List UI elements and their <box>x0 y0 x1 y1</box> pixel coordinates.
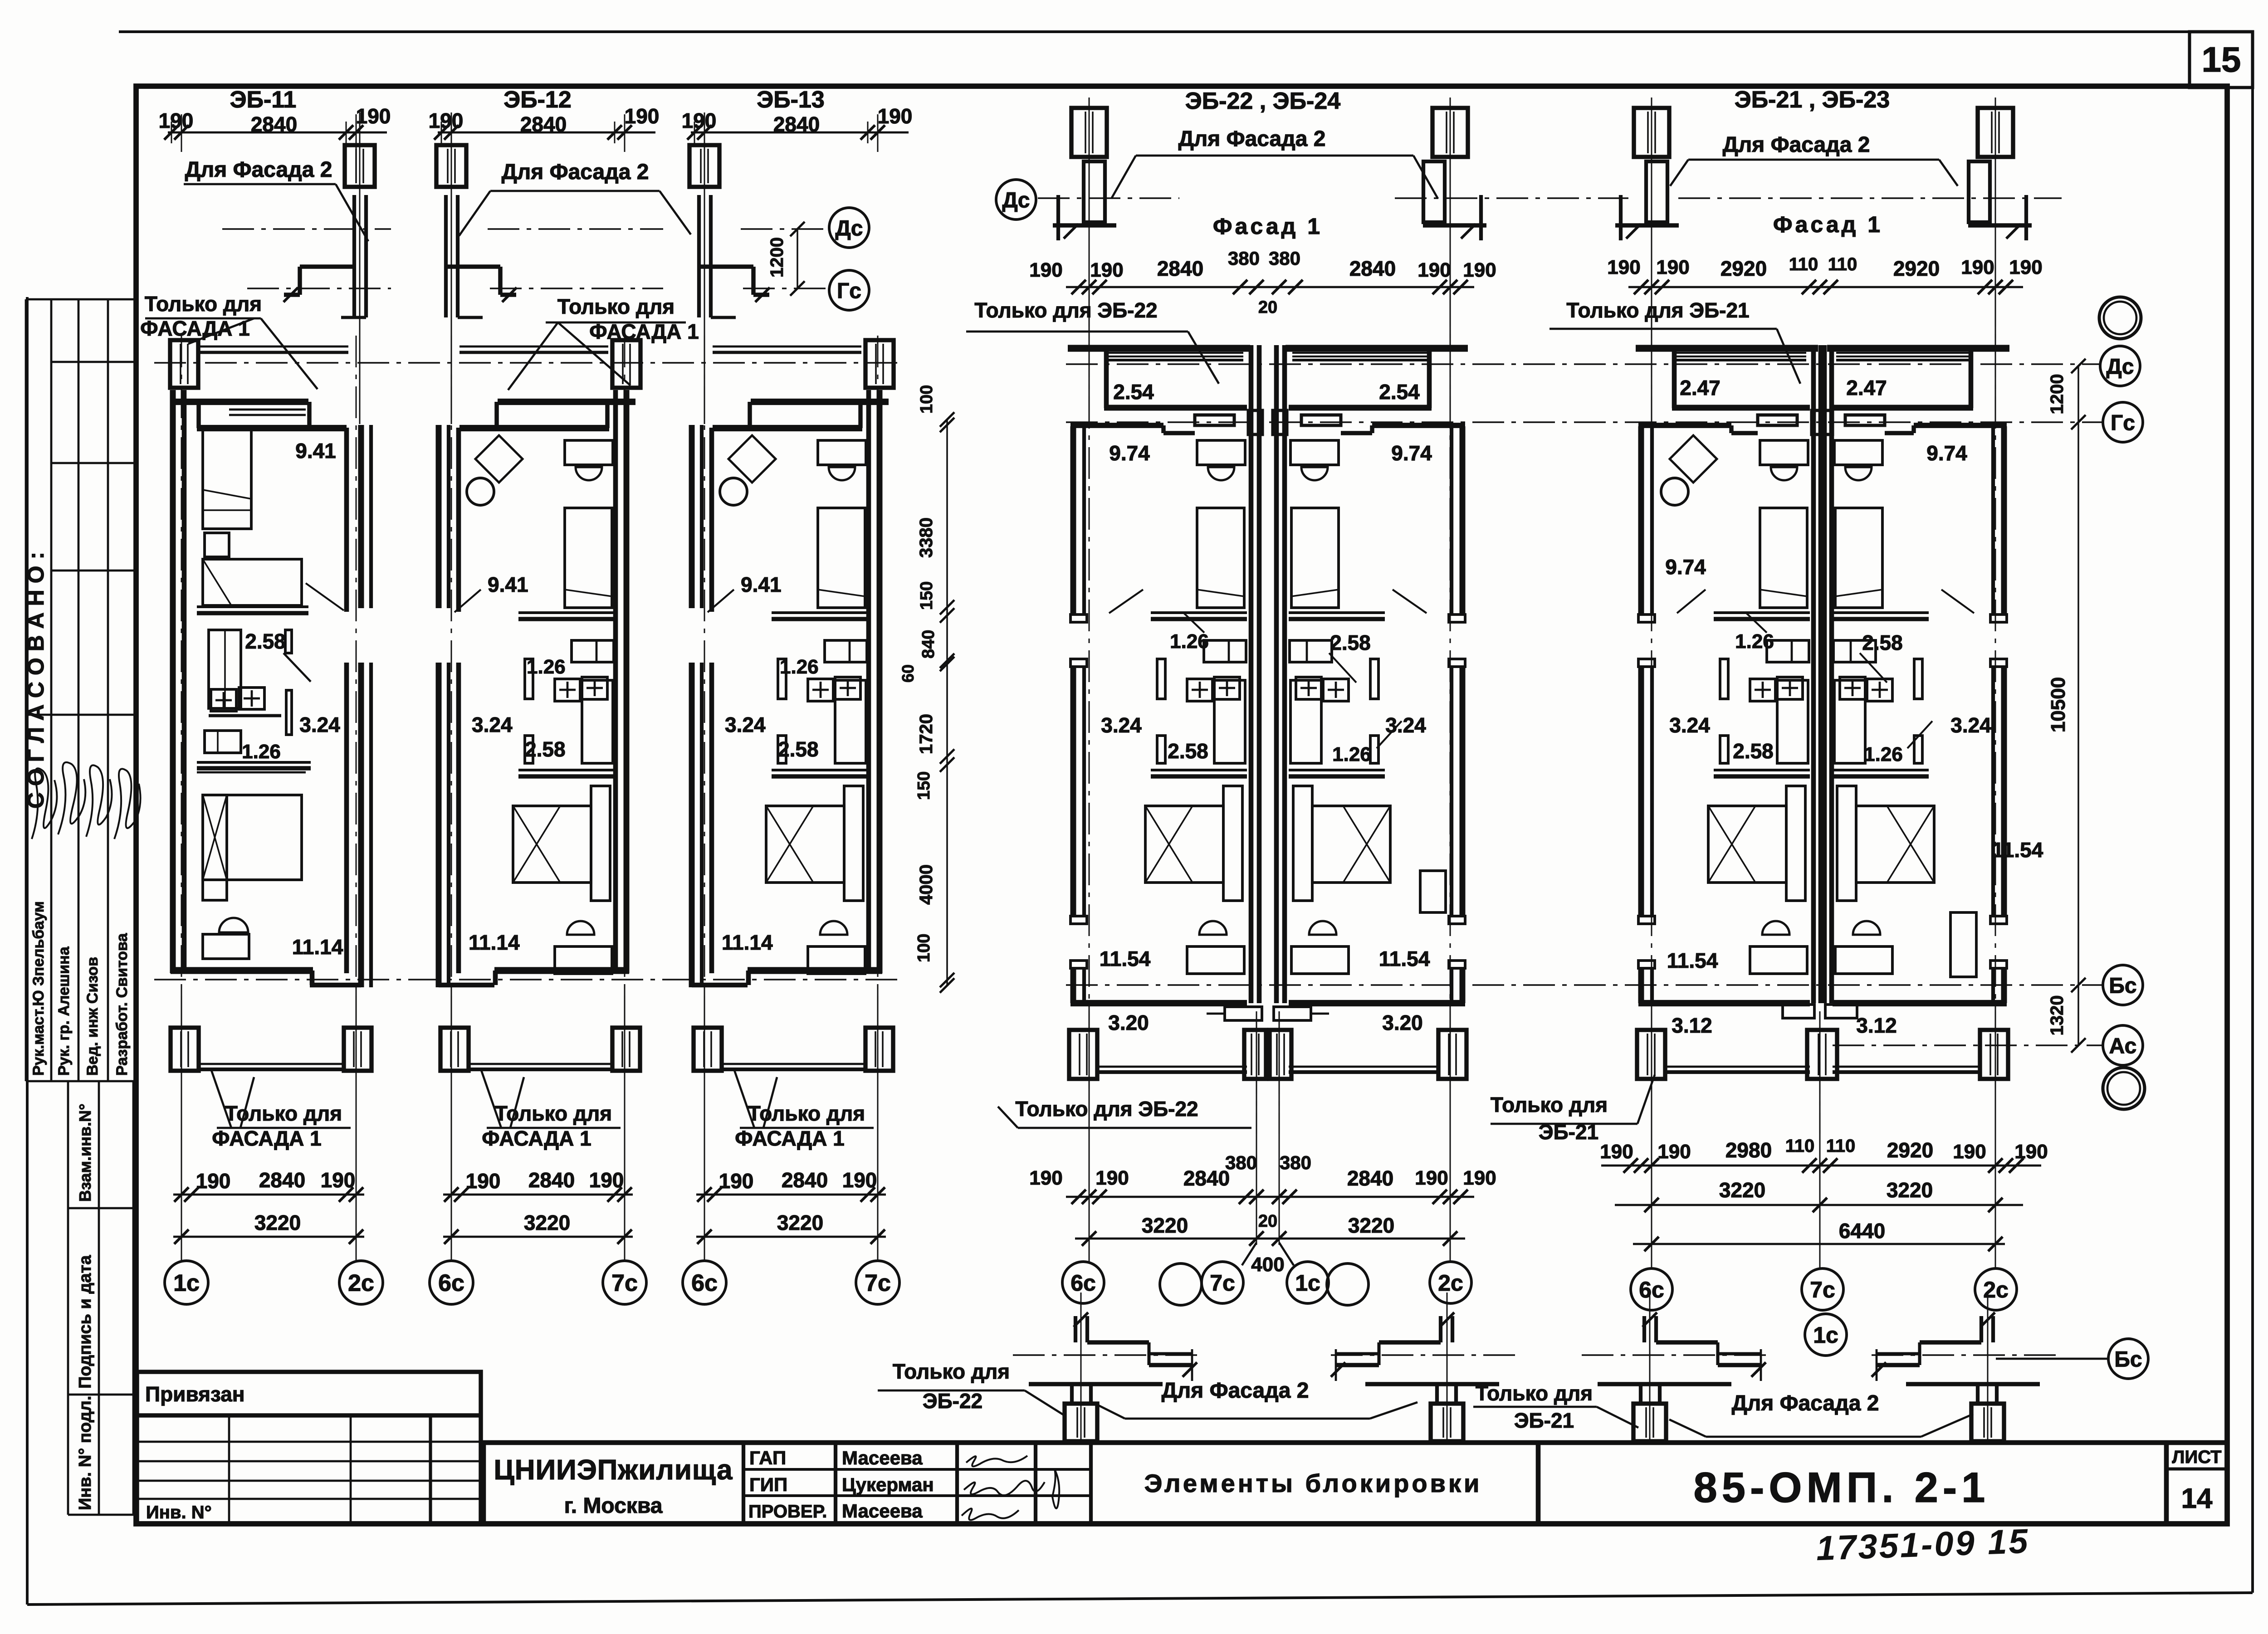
svg-text:Для Фасада 2: Для Фасада 2 <box>1162 1379 1309 1403</box>
axis circle 6с <box>430 1261 473 1304</box>
svg-text:380: 380 <box>1280 1152 1311 1173</box>
svg-text:190: 190 <box>1607 256 1640 278</box>
desk bottom <box>808 946 865 974</box>
top section lower pier <box>1969 161 1990 222</box>
svg-text:1с: 1с <box>1813 1322 1838 1348</box>
loggia window lines <box>1109 352 1243 354</box>
bottom section corner wall <box>1642 1316 1646 1342</box>
svg-text:Вед. инж Сизов: Вед. инж Сизов <box>84 957 101 1076</box>
bottom dim line 2 <box>173 1236 364 1238</box>
svg-text:3.20: 3.20 <box>1108 1011 1149 1034</box>
dresser <box>1197 440 1245 465</box>
room top wall steps <box>1638 423 1731 428</box>
door leaf bars <box>525 659 533 699</box>
svg-text:9.74: 9.74 <box>1109 441 1150 465</box>
svg-text:190: 190 <box>1961 256 1994 278</box>
svg-text:3220: 3220 <box>777 1211 823 1234</box>
svg-text:9.74: 9.74 <box>1665 555 1706 579</box>
balcony front line <box>1665 1066 1810 1068</box>
bottom section axis line <box>1870 1354 2056 1356</box>
loggia top wall <box>1636 345 1818 351</box>
loggia side wall <box>1104 345 1109 408</box>
balcony pier right <box>865 1028 893 1071</box>
desk bottom <box>555 946 612 974</box>
bottom axis extension lines <box>181 984 182 1261</box>
kitchen leader lines plans 4-5 <box>1329 653 1356 683</box>
bottom section corner wall <box>1451 1316 1454 1342</box>
svg-text:1.26: 1.26 <box>780 656 819 678</box>
top section pier <box>1071 108 1107 157</box>
svg-text:100: 100 <box>914 934 934 962</box>
svg-text:190: 190 <box>1600 1141 1633 1163</box>
balcony pier <box>1637 1030 1665 1079</box>
axis circle Гс plans 1-3 <box>829 270 869 310</box>
balcony pier <box>1069 1030 1097 1079</box>
stove and sink with plus <box>1323 679 1349 701</box>
wash sink semicircle <box>1199 921 1227 935</box>
loggia top wall <box>1068 345 1250 351</box>
svg-text:1с: 1с <box>1295 1270 1320 1296</box>
desk bottom <box>1187 946 1244 974</box>
kitchen small rects <box>1833 640 1876 662</box>
svg-text:7с: 7с <box>611 1270 638 1297</box>
bottom section base line <box>1365 1382 1499 1386</box>
svg-text:Ас: Ас <box>2109 1034 2137 1058</box>
svg-text:190: 190 <box>2014 1141 2048 1163</box>
plan5 bottom dim line 2 <box>1615 1204 2023 1206</box>
bottom section base line <box>1906 1382 2040 1386</box>
plan ЭБ-12 right wall <box>613 390 618 973</box>
svg-text:6с: 6с <box>691 1270 718 1297</box>
dresser <box>1760 440 1808 465</box>
outer sheet border top <box>119 30 2253 33</box>
plan ЭБ-11 room 9.41 bed vertical <box>203 430 251 529</box>
bottom dim line 2 <box>443 1236 633 1238</box>
bottom dim line 1 <box>173 1194 364 1196</box>
loggia side wall <box>1427 345 1432 408</box>
top dim extension lines <box>451 114 452 152</box>
svg-text:9.41: 9.41 <box>295 439 336 463</box>
svg-text:1.26: 1.26 <box>527 656 566 678</box>
desk bottom <box>1291 946 1349 974</box>
svg-text:Подпись и дата: Подпись и дата <box>76 1255 95 1389</box>
svg-text:15: 15 <box>2202 39 2241 79</box>
svg-text:2840: 2840 <box>1347 1166 1393 1190</box>
bottom section pier <box>1639 1384 1642 1404</box>
svg-text:ЭБ-11: ЭБ-11 <box>230 87 297 113</box>
partition below top room <box>1833 611 1929 614</box>
double bed (bottom room) <box>1145 806 1223 883</box>
kitchen small rects <box>1204 640 1246 662</box>
party wall lines <box>1249 345 1254 1003</box>
plan ЭБ-11 window pier <box>170 340 198 388</box>
bottom wall <box>1289 1000 1465 1006</box>
svg-text:1.26: 1.26 <box>1332 743 1371 766</box>
svg-text:Гс: Гс <box>837 279 861 303</box>
plan ЭБ-13 left wall inner <box>709 428 714 612</box>
right axis circles column <box>2099 297 2141 339</box>
axis circle 1с <box>165 1261 208 1304</box>
bed (top room) <box>1291 508 1339 608</box>
plan ЭБ-11 cabinet bottom <box>203 934 249 959</box>
svg-text:3.24: 3.24 <box>1669 713 1710 737</box>
svg-text:190: 190 <box>356 104 391 128</box>
svg-text:Только для ЭБ-21: Только для ЭБ-21 <box>1566 298 1749 322</box>
kitchen counter <box>1777 680 1808 763</box>
door leaf bars <box>778 659 786 699</box>
door leaf bars <box>1914 659 1922 699</box>
plan ЭБ-11 kitchen shelf line <box>209 714 281 717</box>
sink semicircle below dresser <box>576 467 602 480</box>
door leaf bars <box>1157 659 1165 699</box>
stove and sink with plus <box>1867 679 1892 701</box>
bed (top room) <box>1760 508 1807 608</box>
svg-text:1.26: 1.26 <box>1735 630 1774 653</box>
plan ЭБ-12 left wall inner <box>456 428 461 612</box>
svg-text:Только для: Только для <box>1491 1093 1608 1117</box>
svg-text:2920: 2920 <box>1721 257 1767 280</box>
svg-text:Взам.инв.N°: Взам.инв.N° <box>76 1104 94 1202</box>
axis circle Дс plans 1-3 <box>829 208 869 248</box>
plan4 bottom thresholds <box>1225 1007 1262 1020</box>
svg-text:Для Фасада 2: Для Фасада 2 <box>1723 133 1870 157</box>
plan5 balcony center pier <box>1807 1030 1837 1079</box>
svg-text:ЭБ-22: ЭБ-22 <box>923 1389 982 1413</box>
svg-text:2840: 2840 <box>773 112 820 136</box>
svg-text:Инв. N° подл.: Инв. N° подл. <box>76 1396 95 1510</box>
plan ЭБ-12 bottom wall <box>494 967 629 974</box>
kitchen counter <box>1214 680 1245 763</box>
door leaf bars <box>1720 659 1728 699</box>
partition below top room <box>1714 611 1810 614</box>
svg-text:Дс: Дс <box>836 216 863 240</box>
svg-text:Только для ЭБ-22: Только для ЭБ-22 <box>974 298 1157 322</box>
svg-text:ЭБ-21 , ЭБ-23: ЭБ-21 , ЭБ-23 <box>1735 87 1890 113</box>
bottom section base line <box>1029 1382 1163 1386</box>
axis circle Бс bottom right <box>2108 1339 2148 1379</box>
plan5 loggia center pier <box>1812 410 1833 434</box>
outer sheet border right <box>2251 32 2254 1593</box>
stove and sink with plus <box>1187 679 1212 701</box>
balcony pier right <box>612 1028 640 1071</box>
svg-text:190: 190 <box>159 109 194 132</box>
svg-text:Масеева: Масеева <box>842 1447 923 1468</box>
axis Дс line plans 4-5 top sections <box>1038 197 1179 199</box>
top dim extension lines <box>181 114 182 152</box>
plan ЭБ-12 window lines <box>459 346 608 348</box>
svg-text:190: 190 <box>429 109 464 132</box>
top dimension line <box>438 132 655 134</box>
bottom dim line 2 <box>696 1236 886 1238</box>
bottom section corner wall <box>1991 1316 1995 1342</box>
partition below kitchen <box>1289 769 1385 771</box>
plan ЭБ-13 bottom wall <box>748 967 882 974</box>
room top wall steps <box>1372 423 1465 428</box>
balcony pier left <box>440 1028 469 1071</box>
svg-text:2840: 2840 <box>520 112 567 136</box>
bottom axis extension lines <box>704 984 705 1261</box>
axis Ас line plans 4-5 <box>1833 1044 2103 1046</box>
bottom dim line 1 <box>696 1194 886 1196</box>
svg-text:9.74: 9.74 <box>1391 441 1432 465</box>
svg-text:11.14: 11.14 <box>292 935 343 959</box>
plan5 top dim line <box>1628 286 2023 288</box>
plan ЭБ-11 partition 1 <box>197 605 308 608</box>
kitchen counter <box>1290 680 1321 763</box>
kitchen small rects <box>825 640 867 662</box>
svg-text:190: 190 <box>1657 1141 1691 1163</box>
svg-text:Рук.маст.Ю Зпельбаум: Рук.маст.Ю Зпельбаум <box>30 901 47 1076</box>
svg-text:ФАСАДА 1: ФАСАДА 1 <box>482 1127 591 1150</box>
svg-text:11.54: 11.54 <box>1379 947 1430 971</box>
plan ЭБ-11 door bar 2 <box>286 690 292 735</box>
plan5 axis circles <box>1631 1268 1672 1310</box>
axis circle 2с <box>339 1261 383 1304</box>
loggia bottom wall <box>1672 405 1810 411</box>
svg-text:190: 190 <box>842 1168 877 1192</box>
bottom section corner wall <box>1074 1316 1077 1342</box>
svg-text:2.47: 2.47 <box>1846 376 1887 400</box>
svg-text:2840: 2840 <box>259 1168 305 1192</box>
svg-text:11.14: 11.14 <box>469 931 520 954</box>
diamond table <box>1670 435 1717 483</box>
svg-text:7с: 7с <box>865 1270 891 1297</box>
svg-text:1200: 1200 <box>2047 374 2067 415</box>
window tick marks <box>1990 615 2007 622</box>
plan ЭБ-11 nightstand <box>205 533 229 557</box>
svg-text:20: 20 <box>1258 1212 1277 1231</box>
svg-text:60: 60 <box>899 664 917 683</box>
svg-text:Для Фасада 2: Для Фасада 2 <box>1732 1391 1879 1415</box>
svg-text:г. Москва: г. Москва <box>564 1494 663 1518</box>
plan ЭБ-11 interior top wall <box>197 425 347 431</box>
wash sink semicircle <box>1762 921 1789 935</box>
plan ЭБ-11 sink bottom <box>219 918 248 932</box>
bottom section pier <box>1070 1384 1074 1404</box>
plan4 bottom dim line 2 <box>1075 1238 1465 1240</box>
plan ЭБ-13 right wall <box>866 390 871 973</box>
svg-text:11.54: 11.54 <box>1992 838 2043 862</box>
bed (top room) <box>1197 508 1244 608</box>
window tick marks <box>1638 615 1655 622</box>
bottom section axis line <box>1329 1354 1515 1356</box>
svg-text:400: 400 <box>1251 1254 1284 1276</box>
svg-text:11.54: 11.54 <box>1667 949 1718 972</box>
svg-text:190: 190 <box>1029 259 1062 281</box>
top dim extension lines <box>704 114 705 152</box>
svg-text:ФАСАДА 1: ФАСАДА 1 <box>735 1127 845 1150</box>
sink semicircle below dresser <box>1771 467 1797 480</box>
svg-text:ФАСАДА 1: ФАСАДА 1 <box>140 317 250 340</box>
balcony pier <box>1438 1030 1466 1079</box>
svg-text:ЭБ-22 , ЭБ-24: ЭБ-22 , ЭБ-24 <box>1185 88 1340 114</box>
plan5 bottom thresholds <box>1783 1005 1814 1018</box>
svg-text:190: 190 <box>682 109 717 132</box>
partition below top room <box>518 611 615 614</box>
svg-text:2840: 2840 <box>1183 1166 1230 1190</box>
kitchen counter <box>582 680 613 763</box>
plan5 bottom dim line 3 <box>1633 1243 2005 1245</box>
svg-text:2.58: 2.58 <box>525 737 566 761</box>
svg-text:Только для: Только для <box>1476 1381 1593 1405</box>
axis Бс line plans 4-5 <box>1066 984 2103 986</box>
svg-text:110: 110 <box>1828 254 1857 274</box>
svg-text:2840: 2840 <box>1349 257 1396 280</box>
bottom wall <box>1070 1000 1247 1006</box>
svg-text:Только для: Только для <box>145 292 262 316</box>
sidebar signatures <box>32 762 141 839</box>
dresser <box>565 440 613 465</box>
top section pier <box>1634 108 1669 157</box>
room label leader lines <box>306 583 344 610</box>
chair circle <box>1661 478 1688 505</box>
kitchen counter <box>1834 680 1865 763</box>
svg-text:6с: 6с <box>438 1270 464 1297</box>
svg-text:2.58: 2.58 <box>245 629 286 653</box>
dresser <box>1834 440 1882 465</box>
double bed (bottom room) <box>1312 806 1390 883</box>
top dimension line <box>691 132 909 134</box>
axis Дс line plans 1-3 top sections <box>222 228 391 230</box>
kitchen small rects <box>1290 640 1332 662</box>
svg-text:2.58: 2.58 <box>1862 631 1903 654</box>
plan ЭБ-11 bottom wall <box>171 967 313 974</box>
bottom dim line 1 <box>443 1194 633 1196</box>
wash sink semicircle <box>1309 921 1336 935</box>
double bed (bottom room) <box>766 806 844 883</box>
plan ЭБ-11 wc <box>205 731 241 753</box>
svg-text:190: 190 <box>878 104 913 128</box>
svg-text:Только для ЭБ-22: Только для ЭБ-22 <box>1015 1097 1198 1121</box>
plan ЭБ-12 top wall section <box>436 145 466 187</box>
wash sink semicircle <box>1853 921 1880 935</box>
plan ЭБ-11 right wall inner <box>344 428 349 612</box>
svg-text:ЦНИИЭПжилища: ЦНИИЭПжилища <box>494 1454 733 1486</box>
svg-text:Для Фасада 2: Для Фасада 2 <box>185 158 332 182</box>
plan4 top dim line <box>1066 286 1474 288</box>
balcony front line <box>469 1063 612 1065</box>
middle vertical dim column <box>946 419 948 985</box>
dresser <box>1290 440 1339 465</box>
svg-text:Цукерман: Цукерман <box>842 1474 934 1495</box>
loggia window lines <box>1292 352 1427 354</box>
svg-text:ЭБ-12: ЭБ-12 <box>503 87 572 113</box>
sink semicircle below dresser <box>1301 467 1328 480</box>
svg-text:2840: 2840 <box>251 112 297 136</box>
plan ЭБ-13 top wall <box>751 399 889 405</box>
svg-text:150: 150 <box>914 771 934 800</box>
stove and sink with plus <box>555 679 580 701</box>
svg-text:110: 110 <box>1785 1136 1815 1156</box>
double bed (bottom room) <box>1708 806 1786 883</box>
plan ЭБ-11 double bed <box>203 795 302 880</box>
svg-text:1720: 1720 <box>916 714 936 754</box>
svg-text:2.58: 2.58 <box>1733 739 1774 763</box>
svg-text:190: 190 <box>719 1169 754 1193</box>
axis circle 7с <box>603 1261 646 1304</box>
svg-text:2.58: 2.58 <box>1168 739 1208 763</box>
loggia window lines <box>1677 352 1806 354</box>
bottom axis extension lines <box>451 984 452 1261</box>
sidebar lower narrow table <box>67 1081 69 1515</box>
svg-text:Фасад 1: Фасад 1 <box>1213 214 1323 239</box>
svg-text:190: 190 <box>1029 1167 1062 1189</box>
plan ЭБ-13 left wall outer <box>689 425 695 608</box>
plan4 balcony center piers <box>1244 1030 1266 1079</box>
svg-text:11.14: 11.14 <box>722 931 773 954</box>
balcony pier right <box>344 1028 371 1071</box>
svg-text:Бс: Бс <box>2114 1347 2142 1371</box>
stove and sink with plus <box>808 679 833 701</box>
plan ЭБ-11 top wall <box>171 399 308 405</box>
outer wall <box>1638 426 1644 615</box>
svg-text:4000: 4000 <box>916 864 936 905</box>
svg-text:9.41: 9.41 <box>741 573 782 596</box>
plan4 loggia center piers <box>1248 410 1262 434</box>
svg-text:Разработ. Свитова: Разработ. Свитова <box>113 933 131 1076</box>
svg-text:7с: 7с <box>1810 1277 1835 1302</box>
partition below top room <box>772 611 868 614</box>
svg-text:3.24: 3.24 <box>1101 713 1142 737</box>
title block frame <box>484 1443 2227 1524</box>
bed (top room) <box>565 508 612 608</box>
partition below kitchen <box>1151 769 1247 771</box>
outer sheet border left <box>26 297 29 1605</box>
plan ЭБ-12 window pier right <box>612 340 640 388</box>
svg-text:2.54: 2.54 <box>1113 380 1154 404</box>
plan4 axis extension lines <box>1089 1011 1090 1262</box>
svg-text:3.12: 3.12 <box>1672 1014 1712 1037</box>
loggia bottom wall <box>1104 405 1247 411</box>
bed (top room) <box>818 508 865 608</box>
svg-text:190: 190 <box>321 1168 356 1192</box>
top section foot <box>1423 223 1486 227</box>
balcony pier left <box>694 1028 722 1071</box>
svg-text:380: 380 <box>1269 248 1300 269</box>
window tick marks <box>1449 615 1465 622</box>
loggia bottom wall <box>1833 405 1973 411</box>
svg-text:3.24: 3.24 <box>1950 713 1991 737</box>
kitchen small rects <box>1767 640 1809 662</box>
svg-text:110: 110 <box>1826 1136 1856 1156</box>
svg-text:2840: 2840 <box>528 1168 575 1192</box>
svg-text:Бс: Бс <box>2109 974 2136 998</box>
svg-text:20: 20 <box>1258 298 1277 317</box>
balcony pier left <box>171 1028 199 1071</box>
bed (top room) <box>1835 508 1882 608</box>
svg-text:2980: 2980 <box>1725 1138 1772 1162</box>
bottom section axis line <box>1013 1354 1199 1356</box>
top section pier <box>1978 108 2013 157</box>
axis Гс line plans 1-3 top sections <box>247 288 391 289</box>
svg-text:6с: 6с <box>1070 1270 1096 1296</box>
wash sink semicircle <box>820 921 847 935</box>
double bed (bottom room) <box>513 806 591 883</box>
svg-text:3220: 3220 <box>1142 1214 1188 1237</box>
outer wall <box>1070 426 1076 615</box>
plan ЭБ-12 left wall outer <box>436 425 442 608</box>
loggia bottom wall <box>1289 405 1432 411</box>
partition below kitchen <box>518 769 615 771</box>
partition below kitchen <box>1833 769 1929 771</box>
svg-text:190: 190 <box>1953 1141 1986 1163</box>
svg-text:2с: 2с <box>1438 1270 1463 1296</box>
bottom wall <box>1638 1000 1810 1006</box>
svg-text:9.74: 9.74 <box>1926 441 1967 465</box>
plan5 right unit tall cabinet <box>1950 912 1976 977</box>
sidebar row lines (upper) <box>26 298 137 301</box>
svg-text:3.24: 3.24 <box>472 713 513 737</box>
